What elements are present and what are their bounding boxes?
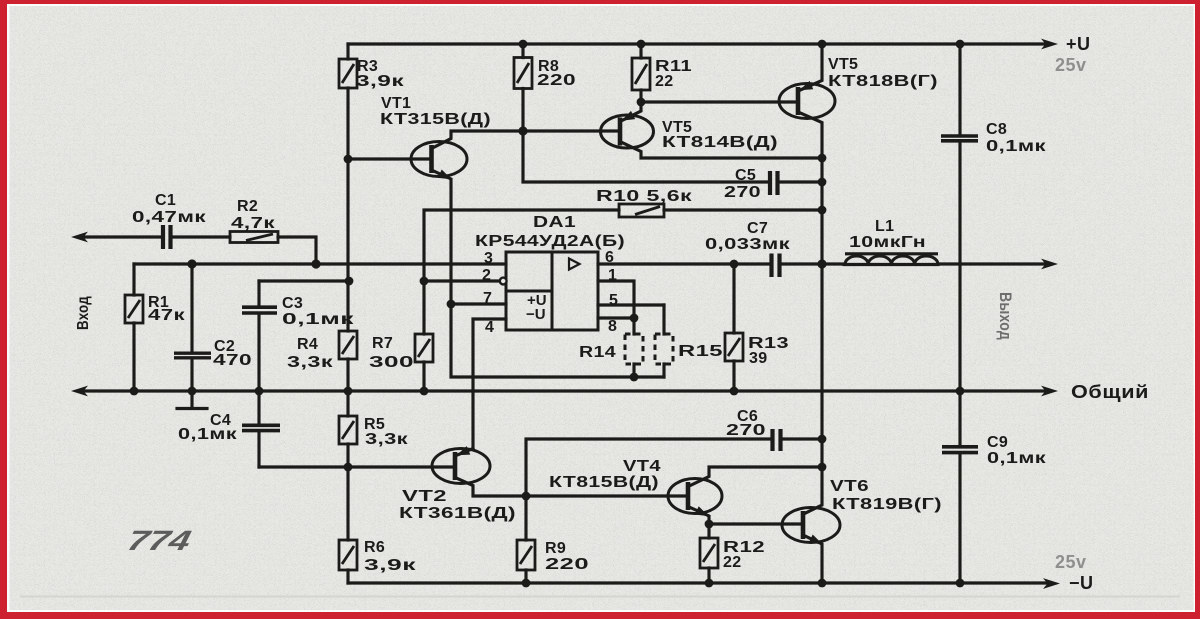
svg-text:−U: −U xyxy=(1069,573,1094,593)
wire C3/C4 vertical xyxy=(257,281,260,467)
wire R15 stubs xyxy=(662,305,665,377)
resistor R12 xyxy=(700,538,718,568)
arrow -U xyxy=(1043,578,1060,589)
label R6 value xyxy=(364,539,417,574)
svg-text:3,9к: 3,9к xyxy=(364,557,417,574)
svg-text:7: 7 xyxy=(483,290,492,307)
svg-text:0,1мк: 0,1мк xyxy=(282,311,355,328)
wire VT5 KT814 collector down then right xyxy=(620,142,822,159)
svg-text:3: 3 xyxy=(484,250,493,267)
capacitor C7 xyxy=(772,254,780,278)
wire C5 right xyxy=(780,180,823,183)
svg-text:L1: L1 xyxy=(875,218,894,235)
label R11 value xyxy=(655,58,692,90)
svg-text:6: 6 xyxy=(605,249,614,266)
svg-text:25v: 25v xyxy=(1055,55,1087,75)
svg-text:39: 39 xyxy=(749,350,767,367)
svg-text:4,7к: 4,7к xyxy=(231,215,276,232)
resistor R8 xyxy=(514,58,532,89)
wire +U rail xyxy=(348,42,1046,45)
svg-text:КТ814В(Д): КТ814В(Д) xyxy=(662,134,778,151)
capacitor C9 xyxy=(942,447,978,453)
svg-text:КТ819В(Г): КТ819В(Г) xyxy=(832,496,942,513)
svg-text:C8: C8 xyxy=(986,121,1007,138)
svg-text:470: 470 xyxy=(213,352,252,369)
svg-text:774: 774 xyxy=(124,525,194,557)
wire VT2 collector to R9/VT4 base xyxy=(455,478,688,497)
op-amp pin numbers xyxy=(482,249,618,336)
svg-text:R6: R6 xyxy=(364,539,385,556)
resistor R3 xyxy=(339,59,357,88)
arrow common right xyxy=(1041,386,1058,397)
wire C6 right xyxy=(783,437,823,440)
svg-text:VT6: VT6 xyxy=(830,478,869,495)
label C3 value xyxy=(282,295,355,328)
wire VT5 KT818 emitter to +U xyxy=(798,44,822,91)
wire R10 right xyxy=(664,208,822,211)
arrow +U xyxy=(1041,39,1058,50)
svg-text:270: 270 xyxy=(726,422,766,439)
label R2 value xyxy=(231,198,276,232)
transistor VT5 KT818 xyxy=(779,81,835,119)
wire C3 top link to VT1 base chain xyxy=(259,279,348,282)
svg-text:C3: C3 xyxy=(282,295,303,312)
resistor R1 xyxy=(125,295,143,323)
svg-text:25v: 25v xyxy=(1055,552,1087,572)
resistor R7 xyxy=(415,334,433,362)
label L1 value xyxy=(849,218,926,251)
wire R13 stubs xyxy=(732,264,735,391)
capacitor C1 xyxy=(163,225,171,249)
transistor VT1 KT315 xyxy=(411,142,467,180)
svg-text:22: 22 xyxy=(723,554,741,571)
wire VT6 base xyxy=(709,522,802,525)
svg-text:4: 4 xyxy=(485,319,494,336)
svg-text:47к: 47к xyxy=(148,307,186,324)
wire VT5 KT818 collector / output vertical / VT6 collector xyxy=(798,112,822,514)
svg-text:C5: C5 xyxy=(735,167,756,184)
resistor R14 (dashed optional) xyxy=(625,334,643,364)
op-amp supply pin labels xyxy=(526,292,547,323)
label R5 value xyxy=(364,416,409,448)
label R9 value xyxy=(545,540,589,573)
svg-text:VT2: VT2 xyxy=(402,488,447,505)
capacitor C6 xyxy=(773,429,781,451)
page fold light line at bottom xyxy=(20,596,1180,598)
label +U 25v xyxy=(1055,34,1091,75)
svg-text:C9: C9 xyxy=(987,434,1008,451)
label R7 value xyxy=(369,335,414,371)
wire R3-R4-R5-R6 chain x=348 xyxy=(346,44,349,583)
wire op-amp pin 1 xyxy=(598,281,634,318)
label DA1 type xyxy=(475,214,625,250)
wire VT1 emitter / op-amp +U supply / R14 R15 bottom rail xyxy=(432,170,665,377)
resistor R6 xyxy=(339,540,357,570)
svg-text:3,9к: 3,9к xyxy=(356,73,405,90)
svg-text:0,033мк: 0,033мк xyxy=(705,236,791,253)
svg-text:VT1: VT1 xyxy=(381,95,411,112)
resistor R10 xyxy=(619,204,664,217)
wire R14 stubs xyxy=(632,318,635,377)
svg-text:3,3к: 3,3к xyxy=(287,354,334,371)
resistor R9 xyxy=(517,540,535,570)
label C8 value xyxy=(986,121,1047,155)
svg-text:0,1мк: 0,1мк xyxy=(178,426,238,443)
op-amp pin 2 inversion circle xyxy=(500,278,507,285)
wire R10 left + R7 vertical xyxy=(424,210,619,391)
wire VT1 base xyxy=(348,157,431,160)
label R12 value xyxy=(723,539,765,571)
op-amp DA1 KR544UD2A body xyxy=(500,252,598,330)
wire VT1 collector to R8 node xyxy=(432,131,524,149)
svg-text:R7: R7 xyxy=(372,335,393,352)
label R1 value xyxy=(148,294,186,324)
wire -U rail xyxy=(348,581,1048,584)
wire C8/C9 vertical xyxy=(958,44,961,583)
wire op-amp pin 5 xyxy=(598,303,664,306)
svg-text:КР544УД2А(Б): КР544УД2А(Б) xyxy=(475,233,625,250)
resistor R13 xyxy=(725,333,743,361)
label VT2 xyxy=(399,488,516,522)
label VT6 xyxy=(830,478,942,513)
svg-text:Общий: Общий xyxy=(1071,382,1149,402)
svg-text:270: 270 xyxy=(724,184,761,201)
resistor R11 xyxy=(632,58,650,90)
wire common (ground) rail xyxy=(84,389,1046,392)
wire op-amp pin 3 line (input node) xyxy=(134,262,506,265)
svg-text:R14: R14 xyxy=(579,344,616,361)
capacitor C8 xyxy=(941,136,978,141)
svg-text:C7: C7 xyxy=(747,220,768,237)
wire op-amp pin 2 xyxy=(424,279,500,282)
svg-text:DA1: DA1 xyxy=(533,214,576,231)
svg-text:220: 220 xyxy=(537,72,576,89)
capacitor C4 xyxy=(242,425,280,430)
wire R11 stubs xyxy=(639,44,642,102)
svg-text:Выход: Выход xyxy=(996,292,1015,340)
svg-text:R10 5,6к: R10 5,6к xyxy=(596,188,693,205)
svg-text:КТ818В(Г): КТ818В(Г) xyxy=(828,73,938,90)
label R8 value xyxy=(537,58,576,89)
wire VT4 emitter / R12 vertical xyxy=(688,507,709,584)
svg-text:R2: R2 xyxy=(237,198,258,215)
svg-text:8: 8 xyxy=(608,318,617,335)
resistor R5 xyxy=(339,416,357,444)
wire input line C1/R2 xyxy=(84,237,316,264)
wire op-amp pin 8 xyxy=(598,316,634,319)
label R3 value xyxy=(356,58,405,90)
svg-text:0,1мк: 0,1мк xyxy=(987,450,1047,467)
svg-text:2: 2 xyxy=(482,267,491,284)
wire C4 bottom link / VT2 base line xyxy=(259,465,455,468)
svg-text:R9: R9 xyxy=(545,540,566,557)
capacitor C3 xyxy=(242,307,277,313)
svg-text:5: 5 xyxy=(609,292,618,309)
wire op-amp pin 7 xyxy=(451,302,506,305)
arrow common left xyxy=(71,386,88,397)
label C7 value xyxy=(705,220,791,253)
wire R1 vertical xyxy=(132,264,135,391)
wire C2 vertical xyxy=(190,264,193,391)
svg-text:−U: −U xyxy=(526,306,546,323)
label C5 value xyxy=(724,167,761,201)
resistor R4 xyxy=(339,331,357,359)
wire VT6 emitter xyxy=(803,535,822,583)
capacitor C2 xyxy=(174,353,211,358)
wire R8 stubs and C5 left xyxy=(523,44,768,182)
svg-text:VT4: VT4 xyxy=(623,458,661,475)
svg-text:Вход: Вход xyxy=(75,296,92,330)
svg-text:220: 220 xyxy=(545,556,589,573)
label VT1 xyxy=(380,95,491,128)
label VT4 xyxy=(549,458,661,491)
svg-text:22: 22 xyxy=(655,73,673,90)
label C2 value xyxy=(213,338,252,369)
label VT5 KT814 xyxy=(662,119,778,151)
label C9 value xyxy=(987,434,1047,467)
label C6 value xyxy=(726,408,766,439)
wire C2 lower stub and bar xyxy=(177,391,207,409)
resistor R2 xyxy=(230,232,278,243)
transistor VT2 KT361 xyxy=(432,446,490,483)
wire VT2 emitter diagonal xyxy=(455,449,473,457)
wire op-amp pin 4 to VT2 emitter xyxy=(473,319,506,449)
wire VT5 KT814 base xyxy=(523,129,620,132)
arrow input (left) xyxy=(71,232,88,243)
wire VT5 KT814 emitter up xyxy=(620,102,641,122)
svg-text:+U: +U xyxy=(1066,34,1091,54)
svg-text:КТ815В(Д): КТ815В(Д) xyxy=(549,474,659,491)
wire op-amp pin 6 output line xyxy=(598,262,1046,266)
arrow output xyxy=(1041,259,1058,270)
label VT5 KT818 xyxy=(828,56,938,90)
svg-text:10мкГн: 10мкГн xyxy=(849,234,926,251)
wire VT4 collector xyxy=(688,467,822,487)
svg-text:КТ361В(Д): КТ361В(Д) xyxy=(399,505,516,522)
wire VT5 KT818 base xyxy=(641,100,797,103)
svg-text:3,3к: 3,3к xyxy=(365,431,409,448)
wire C6 left + R9 vertical xyxy=(526,439,770,583)
label R4 value xyxy=(287,336,334,371)
svg-text:300: 300 xyxy=(369,354,414,371)
label C1 value xyxy=(132,192,207,226)
inductor L1 xyxy=(845,254,938,265)
svg-text:0,47мк: 0,47мк xyxy=(132,209,207,226)
svg-text:КТ315В(Д): КТ315В(Д) xyxy=(380,111,491,128)
label R13 value xyxy=(748,335,789,367)
svg-text:0,1мк: 0,1мк xyxy=(986,138,1047,155)
label C4 value xyxy=(178,412,238,443)
resistor R15 (dashed optional) xyxy=(655,334,673,364)
transistor VT5 KT814 xyxy=(601,111,654,148)
svg-text:C1: C1 xyxy=(155,192,176,209)
svg-text:VT5: VT5 xyxy=(828,56,858,73)
capacitor C5 xyxy=(770,171,778,195)
transistor VT4 KT815 xyxy=(668,479,722,517)
label -U 25v xyxy=(1055,552,1094,593)
svg-text:1: 1 xyxy=(608,267,617,284)
transistor VT6 KT819 xyxy=(782,508,840,545)
svg-text:R15: R15 xyxy=(678,343,723,360)
svg-text:R4: R4 xyxy=(297,336,318,353)
